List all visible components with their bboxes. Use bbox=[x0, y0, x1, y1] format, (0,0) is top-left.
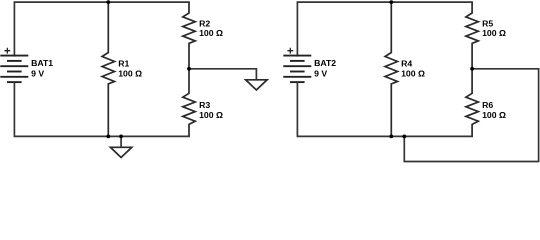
svg-text:BAT1: BAT1 bbox=[31, 58, 53, 68]
ground bbox=[110, 147, 131, 157]
svg-text:R2: R2 bbox=[199, 19, 210, 29]
node bbox=[389, 135, 393, 139]
svg-text:R3: R3 bbox=[199, 100, 210, 110]
node bbox=[402, 135, 406, 139]
svg-text:100 Ω: 100 Ω bbox=[199, 28, 223, 38]
resistor R2 bbox=[183, 2, 195, 69]
svg-text:100 Ω: 100 Ω bbox=[118, 68, 142, 78]
battery BAT2 bbox=[283, 48, 311, 82]
svg-text:R4: R4 bbox=[401, 59, 412, 69]
resistor R5 bbox=[466, 2, 478, 69]
resistor R1 bbox=[102, 2, 114, 136]
resistor R6 bbox=[466, 69, 478, 137]
svg-text:R6: R6 bbox=[482, 100, 493, 110]
svg-text:BAT2: BAT2 bbox=[314, 58, 336, 68]
wire bbox=[189, 69, 256, 80]
node bbox=[106, 135, 110, 139]
svg-text:9 V: 9 V bbox=[31, 68, 44, 78]
battery BAT1 bbox=[0, 48, 28, 82]
svg-text:100 Ω: 100 Ω bbox=[482, 110, 506, 120]
ground bbox=[246, 80, 267, 90]
svg-text:9 V: 9 V bbox=[314, 68, 327, 78]
node bbox=[119, 135, 123, 139]
svg-text:100 Ω: 100 Ω bbox=[199, 110, 223, 120]
resistor R3 bbox=[183, 69, 195, 137]
node bbox=[389, 0, 393, 4]
node bbox=[106, 0, 110, 4]
svg-text:100 Ω: 100 Ω bbox=[482, 28, 506, 38]
wire bbox=[297, 2, 472, 56]
wire bbox=[14, 82, 189, 136]
wire bbox=[404, 69, 538, 162]
resistor R4 bbox=[385, 2, 397, 136]
wire bbox=[14, 2, 189, 56]
wire bbox=[297, 82, 472, 136]
node bbox=[187, 67, 191, 71]
wire bbox=[120, 136, 122, 147]
svg-text:R5: R5 bbox=[482, 19, 493, 29]
svg-text:100 Ω: 100 Ω bbox=[401, 68, 425, 78]
svg-text:R1: R1 bbox=[118, 59, 129, 69]
node bbox=[470, 67, 474, 71]
